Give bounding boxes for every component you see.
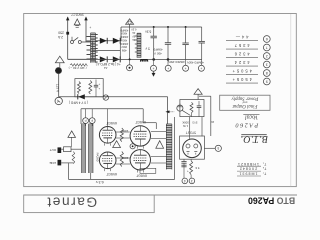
svg-text:2 A: 2 A bbox=[57, 35, 63, 39]
svg-text:5 K: 5 K bbox=[195, 166, 199, 170]
svg-text:4A: 4A bbox=[132, 31, 135, 34]
can capacitor shell 3 bbox=[165, 65, 171, 71]
diode D1 bbox=[100, 38, 107, 44]
diode D4 bbox=[113, 56, 120, 62]
svg-text:+: + bbox=[89, 25, 91, 29]
bias wire bbox=[59, 96, 168, 98]
svg-text:BTO PA260: BTO PA260 bbox=[248, 195, 295, 205]
resistor R5 bbox=[190, 102, 193, 113]
T2 bottom wire bbox=[90, 173, 92, 179]
svg-text:OUT: OUT bbox=[50, 148, 57, 152]
grid resistor R4 bbox=[120, 152, 123, 167]
bias box bbox=[180, 100, 204, 117]
tube V2 6V6GT bbox=[99, 152, 116, 169]
amp right riser bbox=[174, 117, 176, 179]
svg-text:+4 [ 5ʀ-2 MFD-4 ]: +4 [ 5ʀ-2 MFD-4 ] bbox=[96, 62, 121, 66]
switch SW1 wire A bbox=[67, 18, 69, 60]
rectifier loop wire bbox=[92, 41, 94, 60]
safety triangle bbox=[55, 56, 64, 63]
primary rating scribble bbox=[70, 64, 87, 67]
svg-text:8: 8 bbox=[266, 71, 268, 75]
svg-text:6: 6 bbox=[266, 37, 268, 41]
coupling wires V1 bbox=[116, 131, 130, 133]
driver transformer T3 winding bbox=[166, 124, 172, 170]
transformer T1 primary winding bbox=[91, 33, 96, 63]
resistor R1 bbox=[78, 82, 81, 94]
svg-text:P A 2 6 0: P A 2 6 0 bbox=[235, 122, 260, 129]
terminal E bbox=[215, 145, 221, 151]
amp bottom wire bbox=[69, 178, 175, 180]
svg-text:+: + bbox=[98, 82, 100, 86]
amp top right drop bbox=[142, 109, 144, 123]
svg-text:+: + bbox=[167, 66, 169, 70]
svg-text:4 3 2 4: 4 3 2 4 bbox=[234, 60, 250, 65]
svg-text:5V: 5V bbox=[132, 34, 135, 37]
coupling wires V2 bbox=[116, 157, 130, 159]
svg-text:3: 3 bbox=[266, 62, 268, 66]
OUT jack J1 bbox=[58, 147, 62, 153]
amp second wire bbox=[143, 122, 156, 124]
svg-text:3: 3 bbox=[191, 179, 193, 183]
svg-text:40M: 40M bbox=[122, 48, 127, 51]
HT rail wire bbox=[121, 26, 202, 28]
cathode capacitor C7 bbox=[183, 159, 185, 161]
ground bus wire bbox=[68, 58, 202, 60]
diode D2 bbox=[113, 38, 120, 44]
svg-text:A1: A1 bbox=[103, 66, 107, 70]
svg-text:450V: 450V bbox=[121, 45, 127, 48]
V1 top drop bbox=[107, 109, 109, 127]
svg-text:4 5 0 5 +: 4 5 0 5 + bbox=[232, 68, 252, 73]
svg-text:40MFD: 40MFD bbox=[153, 48, 162, 52]
wire plug to fuse bbox=[58, 74, 60, 96]
svg-text:5: 5 bbox=[217, 146, 219, 150]
resistor R2b bbox=[89, 81, 92, 95]
switch SW1 contacts bbox=[71, 41, 74, 44]
svg-text:4 4 —: 4 4 — bbox=[235, 34, 248, 39]
Garnet title box bbox=[24, 195, 155, 213]
svg-text:4 5 0 5 +: 4 5 0 5 + bbox=[232, 77, 252, 82]
svg-text:+: + bbox=[187, 169, 189, 173]
svg-text:B.T.O.: B.T.O. bbox=[240, 134, 268, 145]
can capacitor shell 1 bbox=[127, 65, 133, 71]
feedback arrow bbox=[166, 111, 170, 113]
pilot lamp symbol bbox=[126, 19, 134, 24]
wire down to driver bbox=[167, 97, 169, 124]
bias triangle bbox=[156, 141, 164, 149]
diode D3 bbox=[100, 56, 107, 62]
svg-text:6.3V: 6.3V bbox=[131, 28, 136, 31]
svg-text:5 v: 5 v bbox=[145, 46, 150, 50]
svg-text:4 3 2 6: 4 3 2 6 bbox=[234, 51, 250, 56]
junction A bbox=[66, 32, 69, 35]
svg-text:3A: 3A bbox=[132, 38, 135, 41]
bias lamp bbox=[177, 105, 183, 111]
LINE jack J2 bbox=[58, 160, 62, 166]
bias network box bbox=[75, 79, 103, 97]
svg-text:+: + bbox=[200, 66, 202, 70]
svg-text:( 0 Y 4 MFD ): ( 0 Y 4 MFD ) bbox=[69, 100, 88, 104]
switch SW1 wire B bbox=[85, 18, 87, 42]
can capacitor shell 4 bbox=[183, 65, 189, 71]
capacitor C5 bbox=[95, 80, 97, 86]
svg-text:9: 9 bbox=[266, 79, 268, 83]
title strip rule bbox=[24, 194, 297, 196]
svg-text:Final Output: Final Output bbox=[232, 103, 259, 108]
plate cap pin 1 bbox=[85, 109, 87, 118]
HV triangle bbox=[194, 89, 202, 95]
tube V4 6L6 bbox=[130, 150, 150, 170]
wire to HT rail bbox=[120, 27, 122, 41]
box drop wires bbox=[189, 117, 191, 139]
transformer T1 secondary winding B bbox=[137, 33, 141, 57]
svg-text:115 V: 115 V bbox=[56, 84, 60, 93]
paper crease line bbox=[290, 14, 292, 186]
capacitor C2 bbox=[167, 27, 169, 43]
svg-text:+: + bbox=[98, 87, 100, 91]
HV wire right bbox=[199, 95, 211, 97]
svg-text:Garnet: Garnet bbox=[46, 194, 97, 209]
T3 ticks bbox=[151, 131, 166, 133]
diode D5 bbox=[78, 94, 85, 99]
amp top left drop bbox=[80, 109, 82, 124]
svg-text:40MFD 450V: 40MFD 450V bbox=[168, 60, 185, 64]
title block box bbox=[220, 95, 270, 110]
svg-text:40MFD 450V: 40MFD 450V bbox=[187, 60, 204, 64]
svg-text:Power Supply: Power Supply bbox=[231, 96, 260, 101]
svg-text:SW11C7: SW11C7 bbox=[71, 13, 84, 17]
svg-text:+: + bbox=[152, 66, 154, 70]
svg-text:220K: 220K bbox=[121, 129, 128, 133]
svg-text:6V6GT: 6V6GT bbox=[106, 121, 117, 125]
svg-text:6.3v: 6.3v bbox=[145, 29, 151, 33]
schematic border frame bbox=[24, 14, 297, 187]
jack ground drop bbox=[68, 164, 70, 180]
AC plug P1 bbox=[55, 97, 62, 104]
svg-text:2 X 0 8 4 2: 2 X 0 8 4 2 bbox=[240, 167, 257, 171]
phase triangle bbox=[113, 141, 121, 148]
svg-text:P: P bbox=[91, 119, 93, 123]
svg-text:1 H B 8 6 2 1: 1 H B 8 6 2 1 bbox=[238, 162, 259, 166]
rectifier tube box bbox=[180, 136, 205, 159]
phone jack J3 bbox=[103, 95, 108, 100]
amp top wire bbox=[81, 108, 143, 110]
svg-text:5Y3GT: 5Y3GT bbox=[186, 131, 196, 135]
svg-text:40MFD: 40MFD bbox=[120, 42, 128, 45]
tube V3 6L6 bbox=[130, 126, 150, 146]
can capacitor shell 2 bbox=[151, 65, 157, 71]
output transformer T2 secondary bbox=[82, 124, 86, 173]
svg-text:6V6GT: 6V6GT bbox=[106, 172, 117, 176]
choke L1 bbox=[141, 59, 148, 61]
bus junction 1 bbox=[152, 58, 155, 61]
svg-text:16: 16 bbox=[211, 120, 214, 124]
bus junction 2 bbox=[167, 58, 170, 61]
plate cap pin 2 bbox=[91, 109, 93, 118]
capacitor C3 bbox=[185, 27, 187, 43]
rectifier row 1 wire bbox=[96, 40, 122, 42]
lamp drop wire bbox=[129, 24, 131, 59]
arrow up A bbox=[66, 17, 69, 20]
svg-text:450V: 450V bbox=[121, 32, 127, 35]
svg-text:450 V: 450 V bbox=[154, 52, 162, 56]
wire switch to transformer bbox=[81, 41, 90, 43]
can capacitor shell 5 bbox=[198, 65, 204, 71]
capacitor C6 bbox=[198, 101, 200, 106]
matching resistor box bbox=[64, 147, 72, 152]
svg-text:1 W: 1 W bbox=[183, 124, 188, 128]
rail junctions bbox=[153, 26, 155, 28]
terminal 3 bbox=[189, 178, 195, 184]
svg-text:( 115 V 60 ~ ): ( 115 V 60 ~ ) bbox=[69, 66, 87, 70]
svg-text:4 3 5 7: 4 3 5 7 bbox=[234, 43, 250, 48]
svg-text:5Y3: 5Y3 bbox=[192, 121, 197, 125]
svg-text:4: 4 bbox=[184, 179, 186, 183]
terminal 4 bbox=[182, 178, 188, 184]
grid resistor R3 bbox=[120, 128, 123, 142]
V4 base box bbox=[140, 168, 156, 173]
svg-text:7: 7 bbox=[266, 45, 268, 49]
capacitor C4 bbox=[201, 27, 203, 41]
ground arrow bbox=[153, 71, 155, 73]
svg-text:450V: 450V bbox=[121, 38, 127, 41]
V3 grid terminal bbox=[130, 144, 135, 149]
fuse F1 bbox=[55, 68, 61, 74]
svg-text:250: 250 bbox=[58, 30, 64, 34]
svg-text:T₄: T₄ bbox=[262, 167, 266, 171]
switch symbol triangle bbox=[74, 19, 80, 25]
svg-text:2: 2 bbox=[266, 54, 268, 58]
resistor R2 bbox=[72, 152, 75, 164]
tube V5 5Y3GT bbox=[183, 139, 202, 158]
svg-text:6.3 v: 6.3 v bbox=[96, 180, 104, 184]
svg-text:1 M 8 9 3 1: 1 M 8 9 3 1 bbox=[240, 172, 258, 176]
wire V5 to terminal bbox=[204, 147, 215, 149]
tube V1 6V6GT bbox=[99, 127, 116, 144]
svg-text:PA260: PA260 bbox=[96, 153, 100, 162]
speaker triangle bbox=[68, 131, 76, 138]
svg-text:P: P bbox=[85, 119, 87, 123]
svg-text:+: + bbox=[185, 66, 187, 70]
svg-text:6V6GT: 6V6GT bbox=[135, 120, 146, 124]
svg-text:LINE: LINE bbox=[49, 161, 56, 165]
wire mains bottom bbox=[68, 58, 91, 60]
capacitor C1 bbox=[153, 27, 155, 36]
cathode resistor R6 bbox=[190, 161, 193, 175]
svg-text:6V6GT: 6V6GT bbox=[136, 173, 147, 177]
output transformer T2 primary bbox=[89, 124, 94, 173]
arrow up B bbox=[85, 17, 88, 20]
